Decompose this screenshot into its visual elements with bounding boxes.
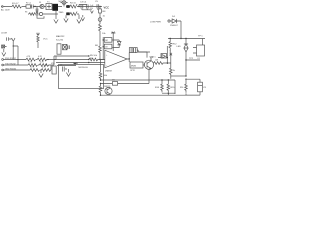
op-amp U5 bbox=[105, 50, 127, 68]
wire vertical x18 bbox=[13, 46, 18, 65]
wire input node bbox=[102, 37, 104, 60]
svg-text:R3: R3 bbox=[25, 12, 27, 14]
ground bbox=[82, 10, 93, 13]
wire row joins bbox=[51, 56, 56, 70]
capacitor C10 bbox=[62, 67, 67, 72]
supply arrow bbox=[170, 53, 173, 58]
node bbox=[185, 38, 186, 39]
node bbox=[167, 62, 168, 63]
wire right led column bbox=[185, 39, 187, 45]
capacitor C3 bbox=[81, 5, 83, 10]
node bbox=[13, 45, 14, 46]
svg-text:GND RS232: GND RS232 bbox=[5, 68, 17, 70]
svg-text:1M: 1M bbox=[105, 40, 108, 42]
ground bbox=[64, 19, 68, 23]
diode D10 bbox=[98, 18, 102, 22]
resistor R1 bbox=[12, 5, 22, 8]
node bbox=[168, 79, 169, 80]
svg-text:K1: K1 bbox=[198, 58, 200, 60]
transistor Q1 bbox=[144, 60, 153, 69]
node bbox=[185, 59, 186, 60]
wire node B drop bbox=[78, 15, 80, 19]
node bbox=[185, 75, 186, 76]
svg-text:J2 DB9: J2 DB9 bbox=[1, 33, 7, 35]
node bbox=[74, 63, 76, 65]
ground bbox=[77, 19, 81, 23]
wire bbox=[177, 21, 182, 39]
wire low stub bbox=[101, 80, 150, 84]
wire bottom join bbox=[162, 93, 175, 95]
IC U6 bbox=[52, 66, 56, 74]
node B bbox=[78, 6, 79, 7]
wire output top path bbox=[127, 50, 150, 59]
capacitor C8 bbox=[7, 37, 12, 40]
wire second rail left bbox=[35, 13, 37, 15]
terminal bbox=[168, 20, 170, 22]
terminal bbox=[2, 64, 4, 66]
capacitor C7 bbox=[36, 12, 39, 16]
bridge rectifier BR1 bbox=[46, 4, 52, 10]
node bbox=[129, 58, 130, 59]
resistor R13 bbox=[39, 64, 49, 67]
svg-text:VCC: VCC bbox=[43, 38, 48, 40]
svg-text:MODULE: MODULE bbox=[79, 67, 89, 69]
wire mid horizontal low bbox=[101, 80, 176, 94]
wire bbox=[112, 45, 119, 48]
resistor R2 bbox=[70, 4, 77, 8]
wire rail A bbox=[168, 38, 205, 40]
terminal bbox=[2, 69, 4, 71]
wire link bbox=[171, 75, 186, 77]
node bbox=[161, 79, 162, 80]
wire mid bus bbox=[54, 56, 89, 66]
resistor R16 bbox=[89, 58, 104, 61]
wire output jog bbox=[138, 52, 161, 58]
resistor R4 bbox=[70, 12, 77, 16]
IC U3 bbox=[57, 44, 61, 54]
resistor R12 bbox=[28, 64, 38, 67]
wire collector bbox=[151, 58, 171, 63]
node bbox=[103, 46, 104, 47]
node bbox=[100, 83, 101, 84]
ground bbox=[54, 20, 58, 24]
resistor R25 vertical bbox=[185, 80, 188, 93]
node bbox=[168, 93, 169, 94]
capacitor C2 bbox=[36, 7, 39, 12]
svg-text:VR1: VR1 bbox=[51, 63, 55, 65]
resistor R11 bbox=[37, 58, 47, 61]
resistor R9 bbox=[99, 24, 102, 31]
capacitor C6 bbox=[99, 9, 102, 13]
wire bbox=[169, 50, 171, 53]
transformer T1 dark body bbox=[52, 4, 58, 11]
diode D4 bbox=[66, 12, 69, 15]
capacitor C13 output bbox=[134, 48, 138, 53]
svg-text:C8: C8 bbox=[105, 47, 107, 49]
svg-text:ICL232: ICL232 bbox=[56, 40, 64, 42]
svg-text:LOW PWR: LOW PWR bbox=[150, 22, 161, 24]
wire relay pins bbox=[193, 39, 203, 54]
wire opamp vcc bbox=[112, 36, 114, 51]
wire feedback top bbox=[103, 40, 119, 41]
node bbox=[100, 79, 101, 80]
node bbox=[99, 59, 100, 60]
resistor R21 vertical bbox=[99, 72, 102, 81]
svg-text:LED: LED bbox=[177, 46, 182, 48]
resistor R19 vertical bbox=[170, 63, 173, 79]
power symbol op-amp bbox=[111, 32, 115, 36]
wire rx line bbox=[4, 59, 57, 61]
fuse F1 bbox=[26, 5, 31, 8]
resistor R3 bbox=[29, 13, 35, 16]
node bbox=[88, 59, 89, 60]
ground bbox=[36, 12, 38, 14]
resistor R5 bbox=[36, 33, 40, 48]
svg-text:7805: 7805 bbox=[59, 12, 65, 14]
wire left vertical bbox=[12, 42, 14, 60]
ground bbox=[2, 49, 6, 56]
wire emitter bbox=[148, 69, 150, 80]
connector J1 input terminal bbox=[1, 6, 4, 8]
capacitor C5 bbox=[97, 4, 99, 10]
ground bbox=[39, 70, 43, 77]
svg-text:OPTO: OPTO bbox=[130, 70, 136, 72]
wire bbox=[186, 79, 200, 82]
svg-text:C7: C7 bbox=[60, 65, 62, 67]
resistor R14 bbox=[30, 69, 40, 72]
relay K1 bbox=[197, 45, 205, 56]
node A bbox=[34, 6, 35, 7]
diode D9 bbox=[112, 82, 117, 86]
svg-text:R16: R16 bbox=[180, 87, 183, 89]
diode D3 bbox=[39, 12, 42, 15]
resistor R15 bbox=[41, 69, 51, 72]
svg-text:R5 10k: R5 10k bbox=[90, 55, 98, 57]
node VCC bbox=[99, 6, 100, 7]
capacitor C4 bbox=[79, 5, 88, 10]
wire jog bbox=[37, 16, 44, 18]
resistor R24 vertical bbox=[167, 80, 170, 92]
svg-text:NE2: NE2 bbox=[59, 1, 63, 3]
capacitor C14 electrolytic bbox=[198, 82, 203, 92]
capacitor C1 bbox=[31, 5, 35, 9]
svg-text:2N2222: 2N2222 bbox=[104, 86, 110, 88]
svg-text:C3 C4: C3 C4 bbox=[80, 2, 87, 4]
wire top rail 1 bbox=[4, 6, 102, 8]
diode D6 bbox=[161, 54, 167, 59]
node bbox=[103, 39, 104, 40]
node bbox=[47, 59, 48, 60]
node bbox=[88, 55, 89, 56]
capacitor C11 feedback bbox=[104, 44, 112, 49]
wire bottom rail bbox=[101, 94, 201, 96]
svg-text:D1: D1 bbox=[39, 2, 41, 4]
terminal bbox=[2, 59, 4, 61]
wire gnd line bbox=[4, 69, 52, 71]
resistor R20 vertical bbox=[169, 39, 172, 52]
svg-text:F1 C1: F1 C1 bbox=[26, 3, 31, 5]
transistor Q2 bbox=[105, 87, 112, 94]
svg-text:1N4007: 1N4007 bbox=[170, 25, 178, 27]
node bbox=[185, 79, 186, 80]
wire left low vertical bbox=[100, 60, 102, 72]
node bbox=[45, 64, 46, 65]
diode D2 bbox=[66, 5, 69, 8]
svg-text:R2 10: R2 10 bbox=[70, 3, 77, 5]
diode D7 bbox=[170, 19, 176, 23]
node bbox=[170, 38, 171, 39]
wire top rail 2 bbox=[28, 13, 79, 15]
connector J2 pin bbox=[2, 45, 5, 48]
LED D8 bbox=[184, 44, 188, 52]
node bbox=[88, 62, 89, 63]
node bbox=[100, 95, 101, 96]
wire lamp ground drop bbox=[65, 15, 67, 18]
node bbox=[167, 57, 168, 58]
resistor R23 vertical bbox=[161, 80, 164, 92]
wire vertical supply drop bbox=[99, 7, 101, 47]
wire regulator ground drop bbox=[55, 11, 57, 19]
capacitor C9 bbox=[68, 45, 69, 49]
diode D5 bbox=[117, 42, 121, 45]
svg-text:MAX232: MAX232 bbox=[56, 35, 65, 38]
capacitor C12 output bbox=[129, 48, 133, 53]
IC module box bbox=[59, 65, 104, 89]
ground bbox=[12, 38, 15, 41]
wire tx line bbox=[4, 64, 55, 66]
svg-text:LM358: LM358 bbox=[105, 71, 112, 73]
resistor R6 vertical bbox=[99, 46, 102, 60]
svg-text:AC 120V: AC 120V bbox=[1, 9, 10, 12]
node bbox=[180, 38, 181, 39]
comparator box U7 bbox=[130, 62, 143, 68]
svg-text:RXD RS232: RXD RS232 bbox=[5, 58, 17, 60]
resistor R18 bbox=[154, 62, 167, 65]
diode D1 bbox=[40, 4, 44, 8]
svg-text:TXD RS232: TXD RS232 bbox=[5, 63, 17, 65]
wire vertical node bbox=[166, 46, 168, 64]
resistor R10 bbox=[26, 58, 36, 61]
lamp DS1 bbox=[62, 1, 66, 5]
ground bbox=[81, 15, 85, 21]
resistor R22 vertical bbox=[99, 84, 102, 96]
svg-text:4N35: 4N35 bbox=[131, 66, 137, 68]
wire bbox=[186, 52, 200, 76]
wire opamp inputs bbox=[89, 60, 105, 63]
svg-text:VCC: VCC bbox=[104, 6, 110, 10]
wire bbox=[186, 92, 200, 95]
crystal Y1 bbox=[63, 44, 67, 49]
wire output to box bbox=[129, 59, 144, 65]
svg-text:TP 1: TP 1 bbox=[198, 36, 203, 38]
svg-text:R1 4.7: R1 4.7 bbox=[12, 3, 19, 5]
node bbox=[17, 59, 18, 60]
ground bbox=[66, 69, 70, 76]
resistor R17 feedback bbox=[104, 38, 112, 43]
